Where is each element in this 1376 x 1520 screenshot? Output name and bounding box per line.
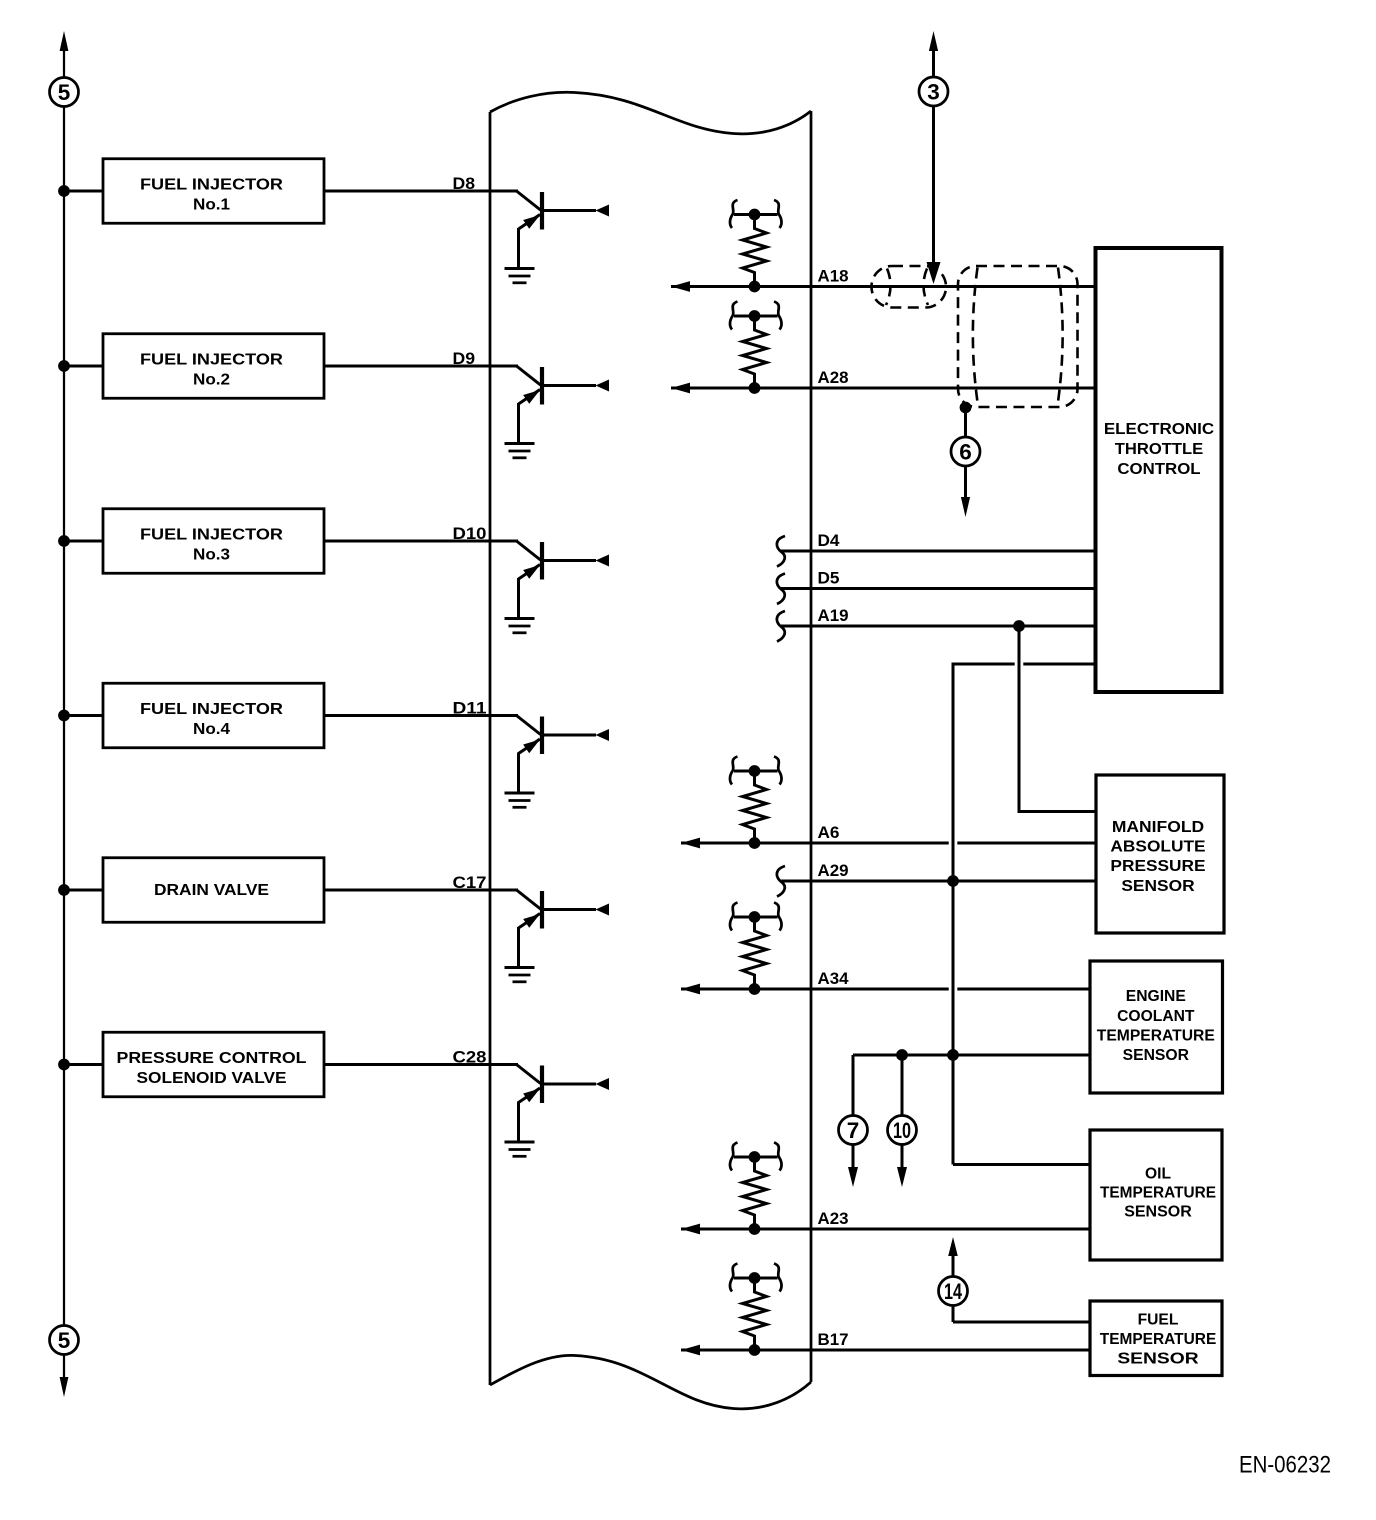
svg-text:7: 7 bbox=[847, 1118, 860, 1143]
wire: C17 from box to ECM bbox=[324, 889, 518, 892]
wire A23 to ECM with arrow bbox=[681, 1228, 1090, 1231]
box: FUEL TEMPERATURE SENSOR bbox=[1090, 1301, 1222, 1376]
ground (emitter of Q5) bbox=[505, 968, 535, 982]
svg-text:FUEL: FUEL bbox=[1138, 1312, 1179, 1329]
arrow up (circle 14) bbox=[948, 1237, 958, 1256]
box: FUEL INJECTOR No.4 bbox=[103, 683, 324, 748]
wire: bus to FUEL INJECTOR No.4 box bbox=[64, 714, 103, 717]
wire-break squiggle on D4 bbox=[777, 536, 785, 567]
transistor Q3 (ECM output driver) bbox=[517, 541, 610, 619]
wire: bus to DRAIN VALVE box bbox=[64, 889, 103, 892]
junction dot on bus at D10 branch bbox=[58, 535, 70, 547]
wire: bus to FUEL INJECTOR No.3 box bbox=[64, 540, 103, 543]
svg-text:No.3: No.3 bbox=[193, 547, 230, 564]
transistor Q4 (ECM output driver) bbox=[517, 716, 610, 794]
svg-text:TEMPERATURE: TEMPERATURE bbox=[1100, 1331, 1217, 1348]
svg-text:ABSOLUTE: ABSOLUTE bbox=[1110, 839, 1205, 856]
ECM top boundary (torn wavy edge) bbox=[490, 92, 811, 134]
wire: shield to circle 6 bbox=[964, 408, 967, 438]
svg-text:FUEL INJECTOR: FUEL INJECTOR bbox=[140, 527, 283, 544]
svg-text:A28: A28 bbox=[818, 369, 849, 387]
svg-text:6: 6 bbox=[959, 440, 972, 465]
wire up to connector circle 3 bbox=[932, 47, 935, 78]
junction dot (ground bus / ECT) bbox=[947, 1049, 959, 1061]
wire A6 to ECM with arrow bbox=[681, 842, 949, 845]
svg-text:A19: A19 bbox=[818, 607, 849, 625]
transistor Q6 (ECM output driver) bbox=[517, 1065, 610, 1143]
svg-text:SOLENOID VALVE: SOLENOID VALVE bbox=[137, 1070, 287, 1087]
svg-text:14: 14 bbox=[944, 1279, 962, 1304]
svg-text:D10: D10 bbox=[453, 525, 487, 543]
svg-text:D9: D9 bbox=[453, 350, 476, 368]
svg-text:B17: B17 bbox=[818, 1331, 849, 1349]
svg-text:D11: D11 bbox=[453, 700, 487, 718]
svg-text:D8: D8 bbox=[453, 175, 476, 193]
ground (emitter of Q3) bbox=[505, 619, 535, 633]
svg-text:MANIFOLD: MANIFOLD bbox=[1112, 819, 1204, 836]
arrow down (circle 6) bbox=[961, 497, 970, 517]
svg-text:C17: C17 bbox=[453, 874, 487, 892]
arrow down (circle 10) bbox=[897, 1167, 907, 1187]
shield symbol (large, around A18/A28 pair) bbox=[958, 266, 1078, 407]
box: DRAIN VALVE bbox=[103, 858, 324, 923]
wire: bus to FUEL INJECTOR No.1 box bbox=[64, 190, 103, 193]
svg-text:A34: A34 bbox=[818, 970, 850, 988]
svg-text:5: 5 bbox=[58, 1328, 71, 1353]
arrow up (circle 3) bbox=[929, 31, 938, 51]
wire: D8 from box to ECM bbox=[324, 190, 518, 193]
box: FUEL INJECTOR No.1 bbox=[103, 159, 324, 224]
connector circle 5 (bottom) bbox=[50, 1326, 79, 1355]
svg-text:EN-06232: EN-06232 bbox=[1239, 1452, 1331, 1479]
connector circle 6 bbox=[951, 437, 980, 466]
svg-text:No.2: No.2 bbox=[193, 372, 230, 389]
ECM left boundary bbox=[489, 112, 492, 1385]
transistor Q2 (ECM output driver) bbox=[517, 366, 610, 444]
box: OIL TEMPERATURE SENSOR bbox=[1090, 1130, 1222, 1260]
wire: ETC lower pin to sensor-ground bus (crossover gap at A19 branch) bbox=[953, 663, 1096, 1165]
junction dot on bus at D11 branch bbox=[58, 710, 70, 722]
svg-text:THROTTLE: THROTTLE bbox=[1115, 441, 1204, 458]
wire A19 (to ETC) bbox=[781, 625, 1096, 628]
connector circle 7 bbox=[839, 1116, 868, 1145]
wire: bus to PRESSURE CONTROL SOLENOID VALVE box bbox=[64, 1063, 103, 1066]
svg-text:SENSOR: SENSOR bbox=[1123, 1047, 1190, 1064]
resistor (ECM pull-up for A34) bbox=[730, 903, 782, 995]
svg-text:5: 5 bbox=[58, 80, 71, 105]
svg-text:PRESSURE: PRESSURE bbox=[1110, 858, 1205, 875]
wire A34 to ECM with arrow bbox=[681, 988, 949, 991]
wire D5 (to ETC) bbox=[781, 587, 1096, 590]
junction dot (shield drain) bbox=[960, 402, 972, 414]
junction dot on bus at D9 branch bbox=[58, 360, 70, 372]
arrow down (circle 7) bbox=[848, 1167, 858, 1187]
connector circle 10 bbox=[888, 1116, 917, 1145]
svg-text:FUEL INJECTOR: FUEL INJECTOR bbox=[140, 352, 283, 369]
transistor Q1 (ECM output driver) bbox=[517, 191, 610, 269]
svg-text:No.1: No.1 bbox=[193, 197, 230, 214]
wire: D11 from box to ECM bbox=[324, 714, 518, 717]
ground (emitter of Q2) bbox=[505, 444, 535, 458]
wire B17 to ECM with arrow bbox=[681, 1349, 1090, 1352]
ECM right boundary bbox=[810, 111, 813, 1382]
svg-text:D4: D4 bbox=[818, 532, 841, 550]
wire: C28 from box to ECM bbox=[324, 1063, 518, 1066]
connector circle 3 bbox=[919, 77, 948, 106]
box: MANIFOLD ABSOLUTE PRESSURE SENSOR bbox=[1096, 775, 1224, 933]
box: ELECTRONIC THROTTLE CONTROL bbox=[1096, 248, 1222, 692]
svg-text:TEMPERATURE: TEMPERATURE bbox=[1097, 1027, 1215, 1044]
svg-text:CONTROL: CONTROL bbox=[1117, 461, 1200, 478]
svg-text:DRAIN VALVE: DRAIN VALVE bbox=[154, 882, 269, 899]
ground (emitter of Q6) bbox=[505, 1142, 535, 1156]
svg-text:10: 10 bbox=[893, 1118, 911, 1143]
ECM bottom boundary (torn wavy edge) bbox=[490, 1355, 811, 1408]
power bus up-arrow bbox=[60, 31, 69, 51]
box: PRESSURE CONTROL SOLENOID VALVE bbox=[103, 1032, 324, 1097]
resistor (ECM pull-up for B17) bbox=[730, 1264, 782, 1356]
junction dot on bus at C28 branch bbox=[58, 1059, 70, 1071]
wire A29 (to MAP sensor) bbox=[781, 880, 1096, 883]
svg-text:D5: D5 bbox=[818, 570, 840, 588]
shield symbol (small, around A18) bbox=[872, 266, 947, 308]
svg-text:OIL: OIL bbox=[1145, 1166, 1171, 1183]
junction dot on bus at D8 branch bbox=[58, 185, 70, 197]
svg-text:TEMPERATURE: TEMPERATURE bbox=[1100, 1185, 1216, 1202]
svg-text:FUEL INJECTOR: FUEL INJECTOR bbox=[140, 177, 283, 194]
svg-text:ELECTRONIC: ELECTRONIC bbox=[1104, 421, 1215, 438]
junction dot on bus at C17 branch bbox=[58, 884, 70, 896]
svg-text:No.4: No.4 bbox=[193, 721, 230, 738]
wire-break squiggle on A19 bbox=[777, 611, 785, 642]
svg-text:PRESSURE CONTROL: PRESSURE CONTROL bbox=[117, 1050, 307, 1067]
wire: circle 3 down to A18 bbox=[932, 106, 935, 266]
resistor (ECM pull-up for A6) bbox=[730, 757, 782, 849]
svg-text:SENSOR: SENSOR bbox=[1124, 1204, 1192, 1221]
wire A18 to ECM with arrow bbox=[671, 285, 1096, 288]
wire-break squiggle on A29 bbox=[777, 866, 785, 897]
wire: down to connector circle 7 bbox=[852, 1055, 855, 1169]
resistor (ECM pull-up for A23) bbox=[730, 1143, 782, 1235]
svg-text:3: 3 bbox=[927, 80, 940, 105]
ground (emitter of Q4) bbox=[505, 793, 535, 807]
wire: left power bus lower stub bbox=[63, 1355, 65, 1379]
svg-text:A6: A6 bbox=[818, 824, 840, 842]
wire: down to connector circle 10 bbox=[901, 1055, 904, 1169]
wire A28 to ECM with arrow bbox=[671, 387, 1096, 390]
svg-text:SENSOR: SENSOR bbox=[1117, 1350, 1199, 1367]
svg-text:ENGINE: ENGINE bbox=[1126, 988, 1186, 1005]
svg-text:SENSOR: SENSOR bbox=[1121, 878, 1195, 895]
svg-text:COOLANT: COOLANT bbox=[1117, 1008, 1195, 1025]
wire: D9 from box to ECM bbox=[324, 365, 518, 368]
junction dot on A19 bbox=[1013, 620, 1025, 632]
connector circle 14 bbox=[939, 1277, 968, 1306]
arrow down onto A18 (shield tap) bbox=[927, 262, 941, 284]
box: FUEL INJECTOR No.2 bbox=[103, 334, 324, 399]
wire: left power bus upper stub bbox=[63, 47, 65, 78]
wire-break squiggle on D5 bbox=[777, 574, 785, 605]
power bus down-arrow bbox=[60, 1377, 69, 1397]
svg-text:A18: A18 bbox=[818, 268, 849, 286]
transistor Q5 (ECM output driver) bbox=[517, 890, 610, 968]
wire D4 (to ETC) bbox=[781, 550, 1096, 553]
wire: D10 from box to ECM bbox=[324, 540, 518, 543]
wire: FUEL TEMPERATURE SENSOR branch to circle 14 bbox=[953, 1255, 1090, 1322]
wire: A19 branch down into MAP sensor bbox=[1019, 626, 1096, 813]
svg-text:A23: A23 bbox=[818, 1210, 849, 1228]
svg-text:C28: C28 bbox=[453, 1049, 487, 1067]
resistor (ECM pull-up for A28) bbox=[730, 302, 782, 394]
wire: left power bus bbox=[63, 107, 65, 1326]
wire: ground bus to OIL TEMPERATURE SENSOR bbox=[953, 1163, 1090, 1166]
svg-text:A29: A29 bbox=[818, 862, 849, 880]
box: ENGINE COOLANT TEMPERATURE SENSOR bbox=[1090, 961, 1223, 1093]
wire: ground bus to ENGINE COOLANT TEMPERATURE SENSOR bbox=[853, 1054, 1090, 1057]
wire: bus to FUEL INJECTOR No.2 box bbox=[64, 365, 103, 368]
connector circle 5 (top) bbox=[50, 78, 79, 107]
wire below circle 6 bbox=[964, 466, 967, 499]
svg-text:FUEL INJECTOR: FUEL INJECTOR bbox=[140, 701, 283, 718]
junction dot at A29 crossing bbox=[947, 875, 959, 887]
junction dot (circle 10 branch) bbox=[896, 1049, 908, 1061]
box: FUEL INJECTOR No.3 bbox=[103, 509, 324, 574]
resistor (ECM pull-up for A18) bbox=[730, 200, 782, 292]
ground (emitter of Q1) bbox=[505, 269, 535, 283]
